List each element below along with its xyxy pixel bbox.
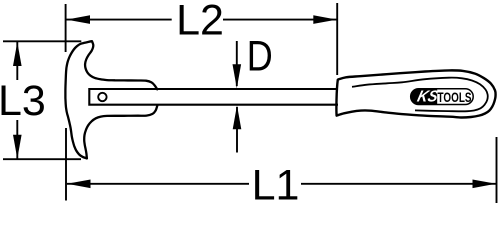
logo KS text [416,88,441,106]
svg-text:L3: L3 [0,77,46,125]
svg-text:D: D [247,33,273,81]
scraper head outline [65,41,157,158]
handle inner contour line [352,78,488,112]
arrowhead L1 left [67,180,91,189]
dimension line L1 left segment [67,183,249,185]
arrowhead D up [233,105,242,129]
svg-text:L2: L2 [176,0,224,45]
dimension D lower arrow line [236,107,238,153]
arrowhead L3 up [13,42,22,66]
KS TOOLS logo pill [411,89,474,105]
svg-text:L1: L1 [252,162,300,210]
dimension line L3 bottom segment [16,120,18,159]
dimension L1 right extension tick [496,137,498,203]
dimension L2 right extension tick [336,3,338,75]
dimension line L1 right segment [301,183,496,185]
handle outline [336,70,495,117]
dimension line L2 left segment [67,19,172,21]
logo left black field [411,89,438,105]
arrowhead L3 down [13,135,22,159]
shaft hole [98,93,106,101]
svg-text:TOOLS: TOOLS [438,90,472,105]
arrowhead L1 right [473,180,497,189]
dimension line L3 top segment [16,42,18,80]
shaft [89,89,338,105]
dimension line L2 right segment [223,19,337,21]
dimension L3 bottom extension line [3,158,81,160]
dimension L2 left extension tick [65,4,67,52]
dimension D upper arrow line [236,41,238,86]
arrowhead D down [233,64,242,88]
dimension L1 left extension tick [65,128,67,201]
dimension L3 top extension line [3,40,81,42]
arrowhead L2 left [67,15,91,24]
arrowhead L2 right [313,15,337,24]
